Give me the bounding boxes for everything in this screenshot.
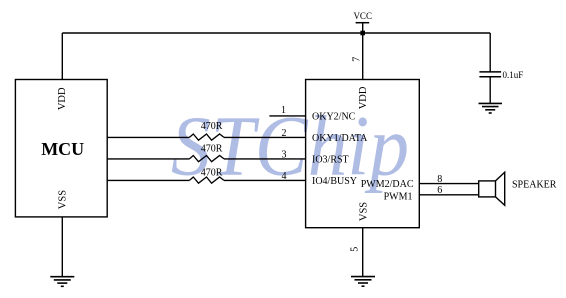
svg-text:PWM1: PWM1 (384, 192, 413, 203)
ground at MCU (50, 277, 74, 287)
svg-text:SPEAKER: SPEAKER (512, 180, 557, 191)
svg-text:3: 3 (282, 149, 287, 160)
wire IC pin5 VSS to ground (362, 228, 364, 277)
pin number 7 (352, 57, 363, 62)
IC pin OKY1/DATA label (312, 133, 368, 144)
value label 0.1uF (503, 70, 524, 80)
svg-text:VSS: VSS (358, 202, 369, 221)
wire MCU VSS to ground (61, 217, 63, 277)
IC U2 box (306, 80, 420, 228)
svg-text:VDD: VDD (358, 86, 369, 109)
IC pin IO4/BUSY label (312, 176, 357, 187)
svg-text:VCC: VCC (353, 11, 372, 21)
svg-text:OKY2/NC: OKY2/NC (312, 112, 356, 123)
wire MCU to R2 (107, 158, 189, 160)
wire MCU to R3 (107, 179, 189, 181)
IC pin VSS label (358, 202, 369, 221)
junction VCC node (360, 31, 365, 36)
svg-text:470R: 470R (201, 144, 223, 155)
IC pin PWM1 label (384, 192, 413, 203)
svg-text:470R: 470R (201, 121, 223, 132)
wire IC pin1 stub (269, 115, 305, 117)
pin number 5 (350, 247, 361, 252)
IC pin VDD label (358, 86, 369, 109)
svg-text:4: 4 (282, 171, 287, 182)
wire R2 to IC pin3 (224, 158, 306, 160)
MCU title (41, 139, 84, 159)
wire capacitor to ground (489, 77, 491, 104)
svg-text:IO4/BUSY: IO4/BUSY (312, 176, 357, 187)
wire MCU to R1 (107, 136, 189, 138)
pin number 2 (282, 128, 287, 139)
svg-text:IO3/RST: IO3/RST (312, 155, 349, 166)
capacitor C1 (479, 72, 501, 77)
MCU pin VDD label (57, 87, 68, 110)
wire R3 to IC pin4 (224, 179, 306, 181)
MCU pin VSS label (57, 190, 68, 209)
svg-text:VDD: VDD (57, 87, 68, 110)
watermark STChip (171, 98, 409, 194)
speaker LS1 (479, 172, 505, 205)
wire IC pin7 VDD to rail (362, 33, 364, 80)
svg-text:7: 7 (352, 57, 363, 62)
pin number 6 (437, 185, 442, 196)
svg-text:2: 2 (282, 128, 287, 139)
svg-text:OKY1/DATA: OKY1/DATA (312, 133, 368, 144)
svg-text:PWM2/DAC: PWM2/DAC (361, 179, 414, 190)
wire VCC top rail (62, 32, 490, 34)
pin number 3 (282, 149, 287, 160)
wire R1 to IC pin2 (224, 136, 306, 138)
label SPEAKER (512, 180, 557, 191)
IC pin OKY2/NC label (312, 112, 356, 123)
svg-text:MCU: MCU (41, 139, 84, 159)
resistor R1 470R (189, 121, 224, 140)
pin number 1 (281, 105, 286, 116)
IC pin IO3/RST label (312, 155, 349, 166)
IC pin PWM2/DAC label (361, 179, 414, 190)
svg-text:5: 5 (350, 247, 361, 252)
resistor R2 470R (189, 144, 224, 162)
ground at capacitor (479, 103, 503, 113)
svg-text:1: 1 (281, 105, 286, 116)
power VCC symbol (353, 11, 372, 33)
wire IC pin6 to speaker (419, 194, 478, 196)
svg-text:6: 6 (437, 185, 442, 196)
svg-text:8: 8 (437, 174, 442, 185)
svg-text:470R: 470R (201, 168, 223, 179)
pin number 8 (437, 174, 442, 185)
ground at IC (351, 277, 375, 287)
pin number 4 (282, 171, 287, 182)
wire MCU VDD to rail (61, 33, 63, 80)
resistor R3 470R (189, 168, 224, 184)
svg-text:0.1uF: 0.1uF (503, 70, 524, 80)
MCU U1 box (15, 80, 107, 217)
wire rail to capacitor (489, 33, 491, 72)
wire IC pin8 to speaker (419, 183, 478, 185)
svg-text:VSS: VSS (57, 190, 68, 209)
